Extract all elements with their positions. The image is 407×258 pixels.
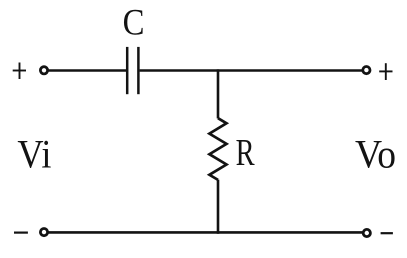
label Vi (input voltage) <box>17 133 51 177</box>
wire: resistor top lead from top node <box>217 69 220 118</box>
capacitor C <box>127 47 138 94</box>
wire: bottom return, left terminal to right terminal <box>48 231 364 234</box>
svg-text:R: R <box>236 132 255 174</box>
polarity - right bottom <box>381 232 393 234</box>
terminal: bottom-right (-) <box>363 229 370 236</box>
polarity + left top <box>13 63 26 80</box>
polarity - left bottom <box>14 232 28 234</box>
terminal: top-right output (+) <box>363 67 370 74</box>
terminal: top-left input (+) <box>40 67 47 74</box>
label C <box>123 1 145 42</box>
svg-text:Vo: Vo <box>355 132 396 177</box>
label R <box>236 132 255 174</box>
wire: top, from capacitor to output terminal <box>140 69 363 72</box>
polarity + right top <box>379 63 392 80</box>
svg-text:C: C <box>123 1 145 42</box>
wire: resistor bottom lead to bottom node <box>217 180 220 234</box>
resistor R <box>209 118 226 180</box>
wire: top, from input terminal to capacitor <box>48 69 127 72</box>
terminal: bottom-left (-) <box>40 229 47 236</box>
svg-text:Vi: Vi <box>17 133 51 177</box>
label Vo (output voltage) <box>355 132 396 177</box>
